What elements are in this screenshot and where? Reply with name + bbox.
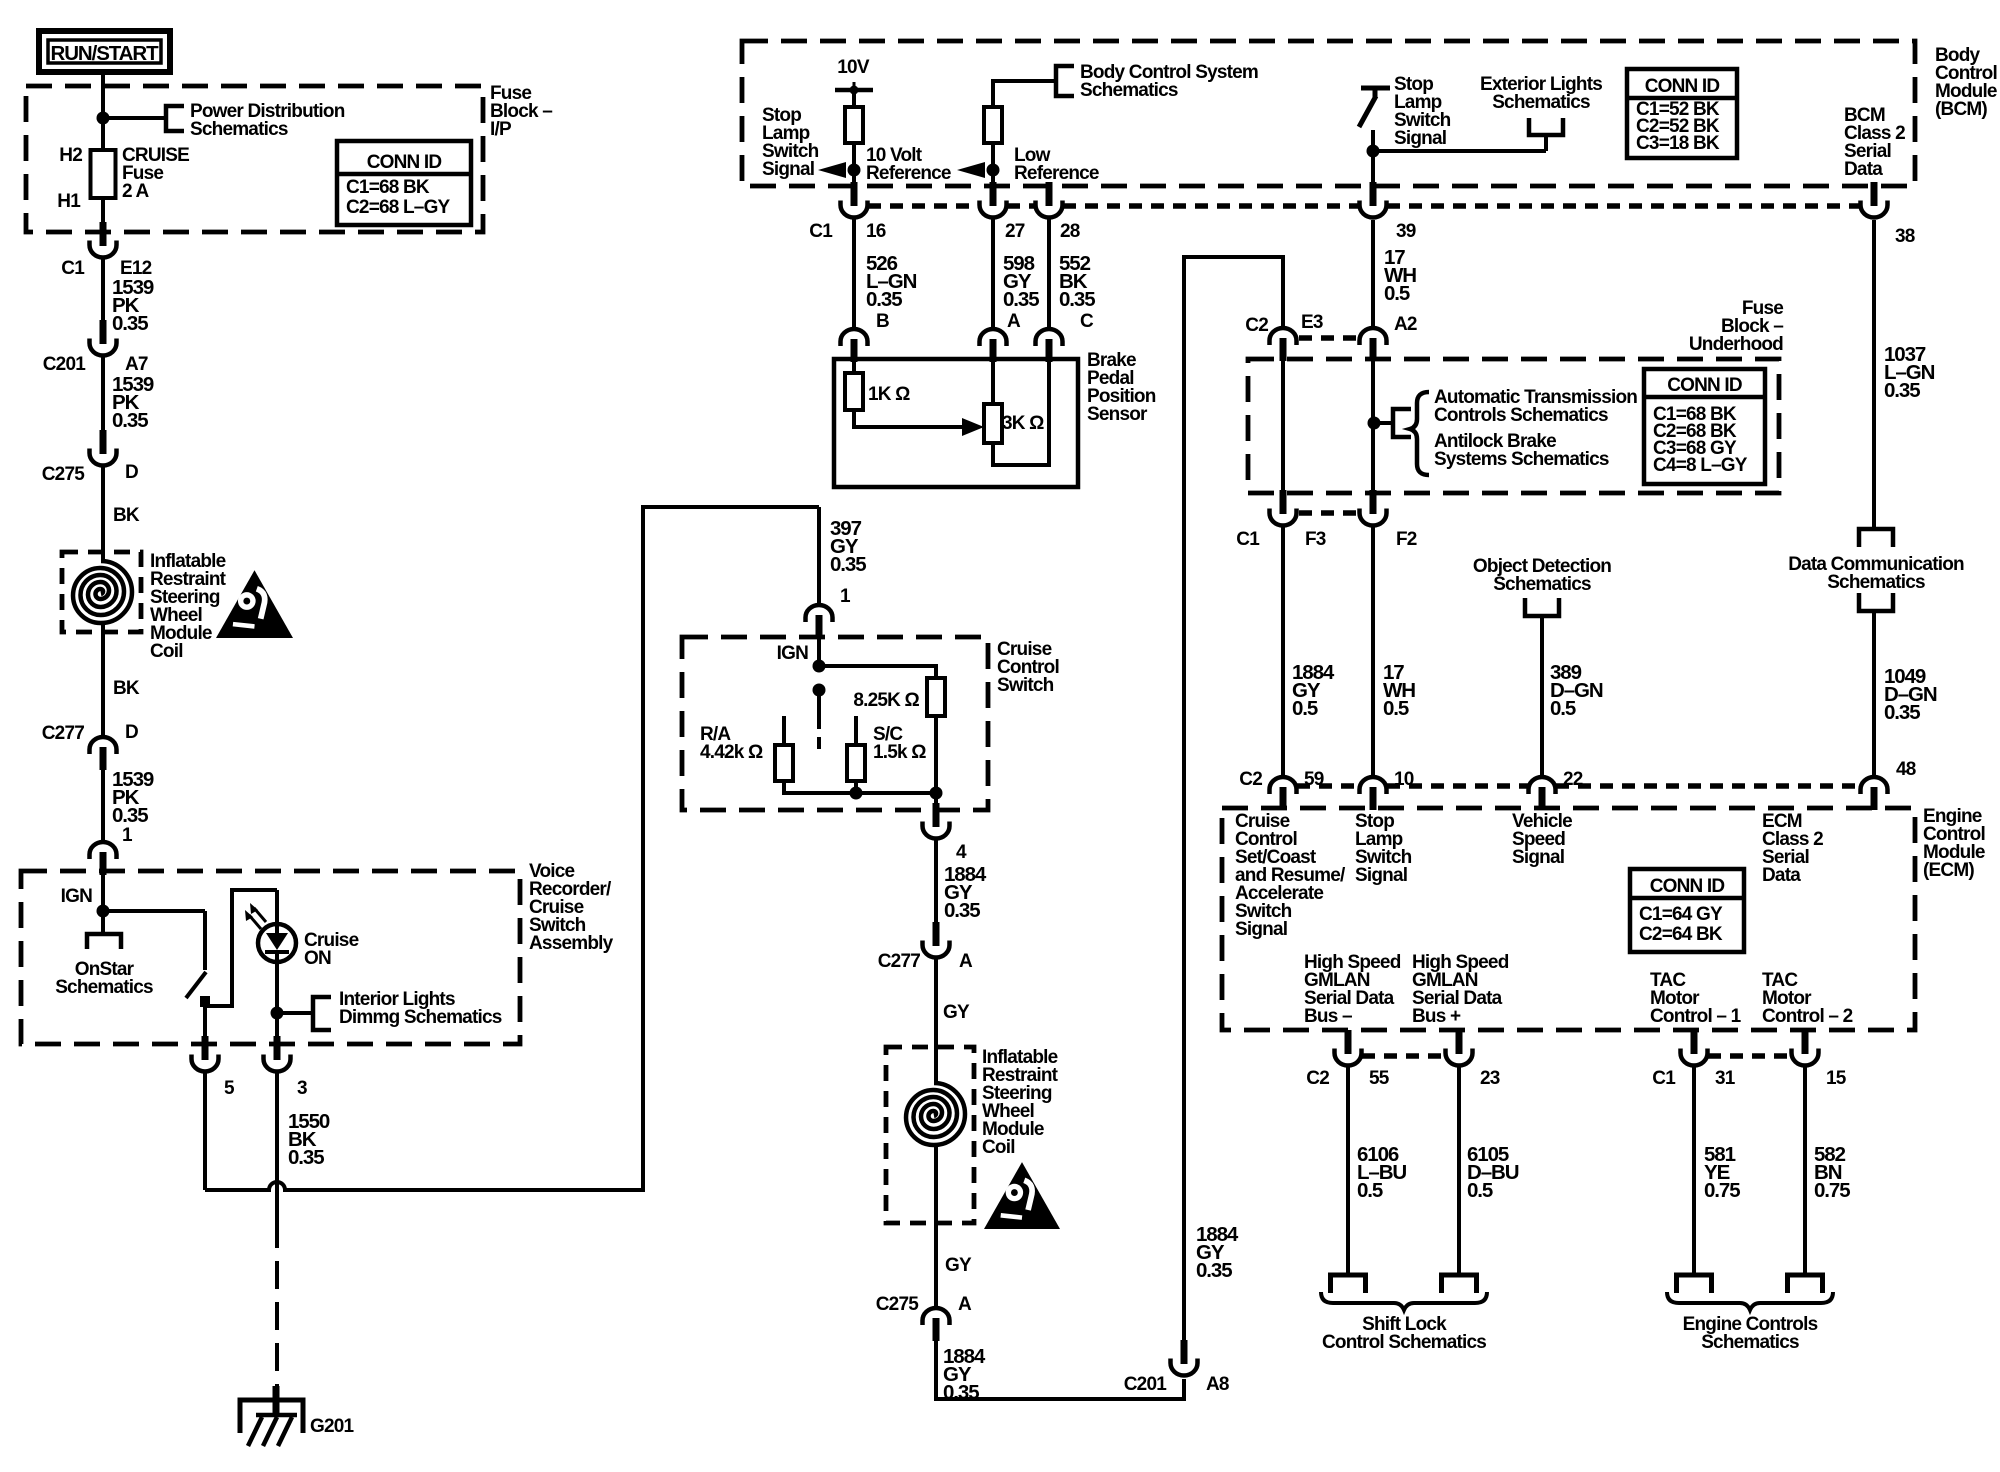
svg-text:C201: C201	[1124, 1374, 1167, 1395]
Cruise Control Switch dashed box	[682, 637, 988, 810]
junction low reference	[987, 164, 1000, 177]
svg-text:E3: E3	[1301, 312, 1323, 333]
connector ECM pin 55	[1335, 1030, 1362, 1066]
wire branch to interior lights dimming	[277, 1011, 313, 1015]
svg-text:D: D	[125, 462, 138, 483]
wire S/C bottom	[854, 781, 858, 795]
svg-text:C1=64 GYC2=64 BK: C1=64 GYC2=64 BK	[1639, 904, 1723, 945]
wire from pin at x=1459	[1457, 1067, 1461, 1274]
svg-text:C1: C1	[1236, 529, 1260, 550]
svg-text:CONN ID: CONN ID	[367, 152, 442, 173]
bracket Body Control System Schematics	[1056, 66, 1074, 96]
ECM bottom connector row dashed links	[1362, 1053, 1790, 1059]
wire 526 L-GN	[852, 219, 856, 329]
svg-text:5: 5	[224, 1078, 235, 1099]
wire to on/off switch	[203, 911, 207, 970]
svg-text:A: A	[958, 1294, 972, 1315]
switch wiper dash	[817, 737, 821, 749]
junction switch wiper	[813, 684, 826, 697]
wire vehicle speed signal	[1540, 616, 1544, 777]
on/off switch blade	[186, 972, 206, 998]
svg-text:3K Ω: 3K Ω	[1002, 413, 1044, 434]
junction interior lights	[271, 1007, 284, 1020]
brace Shift Lock Control Schematics	[1321, 1292, 1487, 1310]
svg-text:Automatic TransmissionControls: Automatic TransmissionControls Schematic…	[1434, 387, 1637, 426]
svg-text:3: 3	[297, 1078, 307, 1099]
svg-text:CONN ID: CONN ID	[1645, 76, 1720, 97]
terminal lug	[1677, 1275, 1712, 1293]
wire branch to AT/ABS	[1374, 421, 1393, 425]
connector pin 1 of voice recorder/cruise switch assembly	[90, 842, 117, 875]
svg-text:8.25K Ω: 8.25K Ω	[853, 690, 919, 711]
svg-text:A2: A2	[1394, 314, 1417, 335]
connector pin 1 of cruise control switch	[806, 605, 833, 638]
wire 552 BK	[1047, 219, 1051, 329]
wire to resistor 8.25K	[819, 666, 936, 678]
wire R/A bottom	[782, 781, 786, 795]
terminal lug	[1788, 1275, 1823, 1293]
connector C275 pin A	[923, 1308, 950, 1341]
wire S/C top	[854, 716, 858, 745]
wire 1539 PK	[101, 357, 105, 430]
wire 8.25K bottom	[934, 716, 938, 793]
svg-text:1: 1	[122, 825, 133, 846]
connector ECM pin 23	[1446, 1030, 1473, 1066]
wire IGN branch to switch	[103, 909, 205, 913]
RUN/START power feed box	[39, 31, 170, 72]
svg-text:H2: H2	[59, 145, 82, 166]
svg-text:10: 10	[1394, 769, 1414, 790]
CONN ID table (BCM)	[1627, 69, 1737, 158]
wire 17 WH	[1371, 220, 1375, 328]
svg-text:Engine ControlsSchematics: Engine ControlsSchematics	[1683, 1314, 1818, 1353]
svg-text:23: 23	[1480, 1068, 1500, 1089]
svg-text:A8: A8	[1206, 1374, 1229, 1395]
wire switch to pin 5	[203, 1007, 207, 1036]
junction exterior lights	[1367, 145, 1380, 158]
svg-text:H1: H1	[57, 191, 81, 212]
connector C201 pin A8	[1171, 1340, 1198, 1376]
wire 1884 GY to C201	[936, 1341, 1184, 1399]
bracket Power Distribution Schematics	[166, 106, 184, 131]
wire from pin at x=1805	[1803, 1067, 1807, 1274]
inflatable restraint steering wheel module coil (driver) dashed box	[62, 552, 141, 632]
wire A2 to F2	[1371, 360, 1375, 490]
svg-text:C2: C2	[1245, 315, 1268, 336]
bracket Data Communication (in)	[1859, 529, 1893, 547]
svg-text:10V: 10V	[837, 57, 870, 78]
wire to pin 4	[934, 793, 938, 803]
wire resistor to pin 27	[991, 143, 995, 186]
wire resistor to pin 16	[852, 143, 856, 186]
svg-text:D: D	[125, 722, 138, 743]
svg-text:C275: C275	[876, 1294, 919, 1315]
bracket AT/ABS schematics	[1393, 409, 1411, 437]
wire into 1K	[852, 360, 856, 373]
svg-text:1K Ω: 1K Ω	[868, 384, 910, 405]
wire 1884 GY to ECM 59	[1281, 527, 1285, 777]
bracket Interior Lights Dimmg Schematics	[313, 997, 331, 1030]
svg-text:C: C	[1080, 311, 1094, 332]
svg-text:1: 1	[840, 586, 851, 607]
BCM connector row dotted line	[868, 203, 1860, 209]
wire stop lamp switch down	[1371, 130, 1375, 186]
SIR warning triangle	[216, 570, 293, 638]
wire 1884 GY riser to E3	[1184, 257, 1283, 1340]
svg-text:C1: C1	[809, 221, 833, 242]
wire 1539 PK to switch assembly	[101, 770, 105, 842]
connector pin 4	[923, 803, 950, 839]
svg-text:59: 59	[1304, 769, 1324, 790]
connector C277 pin D	[90, 737, 117, 770]
svg-text:BK: BK	[113, 505, 140, 526]
wire BK into coil	[101, 466, 105, 563]
connector row dashed link F3-F2	[1299, 510, 1358, 516]
connector ECM pin 31	[1681, 1030, 1708, 1066]
connector BCM pin 38	[1861, 182, 1888, 218]
wire from pin at x=1694	[1692, 1067, 1696, 1274]
wire switch to LED	[205, 890, 277, 1006]
arrow to Stop Lamp Switch Signal	[818, 162, 846, 178]
svg-text:Object DetectionSchematics: Object DetectionSchematics	[1473, 556, 1611, 595]
wire to cruise ON LED	[275, 890, 279, 926]
connector pin A2 (fuse block underhood)	[1360, 328, 1387, 361]
svg-text:16: 16	[866, 221, 886, 242]
coil spiral 2 (steering wheel module coil)	[906, 1083, 965, 1145]
wire LED cathode down	[275, 961, 279, 1036]
terminal lug	[1442, 1275, 1477, 1293]
svg-text:C1=52 BKC2=52 BKC3=18 BK: C1=52 BKC2=52 BKC3=18 BK	[1636, 99, 1720, 154]
Fuse Block - I/P dashed box	[26, 86, 483, 232]
stop lamp switch (BCM internal)	[1359, 88, 1390, 127]
svg-text:C277: C277	[42, 723, 84, 744]
connector BCM pin 27	[980, 182, 1007, 218]
svg-text:BK: BK	[113, 678, 140, 699]
inflatable restraint steering wheel module coil (cruise) dashed box	[886, 1047, 974, 1223]
wire 3K return to pin C	[993, 360, 1049, 465]
wire: pin5/pin3 bus to cruise switch feed (with hop)	[205, 507, 819, 1190]
wire into 3K	[991, 360, 995, 404]
svg-text:B: B	[876, 311, 889, 332]
wire 1037 L-GN	[1872, 220, 1876, 529]
wire 1539 PK	[101, 259, 105, 321]
connector ECM pin 10	[1360, 777, 1387, 810]
svg-text:C201: C201	[43, 354, 86, 375]
junction 10 volt reference	[848, 164, 861, 177]
bracket Data Communication (out)	[1859, 593, 1893, 611]
connector pin 3	[264, 1036, 291, 1072]
svg-text:28: 28	[1060, 221, 1080, 242]
wire pin 5 down	[203, 1073, 207, 1190]
wire 1K to wiper	[854, 410, 964, 427]
connector C1 pin E12	[90, 222, 117, 258]
svg-text:A7: A7	[125, 354, 148, 375]
Brake Pedal Position Sensor box	[834, 359, 1078, 487]
connector BCM pin 28	[1036, 182, 1063, 218]
curly brace AT/ABS	[1410, 392, 1429, 475]
svg-text:CruiseControlSwitch: CruiseControlSwitch	[997, 639, 1059, 696]
svg-text:C1: C1	[1652, 1068, 1676, 1089]
svg-text:G201: G201	[310, 1416, 355, 1437]
svg-text:CONN ID: CONN ID	[1650, 876, 1725, 897]
bracket Object Detection Schematics	[1525, 598, 1559, 616]
resistor S/C 1.5k	[847, 745, 865, 781]
connector ECM pin 22	[1529, 777, 1556, 810]
wire fuse to connector C1	[101, 198, 105, 224]
Engine Control Module (ECM) dashed box	[1222, 808, 1915, 1030]
resistor BCM low reference	[984, 107, 1002, 143]
resistor 1K	[845, 373, 863, 410]
svg-text:C1=68 BKC2=68 BKC3=68 GYC4=8 L: C1=68 BKC2=68 BKC3=68 GYC4=8 L–GY	[1653, 404, 1748, 476]
wire E3 to F3	[1281, 360, 1285, 490]
svg-text:39: 39	[1396, 221, 1416, 242]
svg-text:IGN: IGN	[777, 643, 808, 664]
svg-text:4: 4	[956, 842, 967, 863]
connector ECM pin 15	[1792, 1030, 1819, 1066]
bracket Exterior Lights Schematics	[1529, 118, 1563, 135]
connector C201 pin A7	[90, 320, 117, 355]
wire bracket stem	[1544, 135, 1548, 151]
wire wiper	[817, 690, 821, 729]
wire 1884 GY	[934, 840, 938, 922]
wire IGN inside assembly	[101, 875, 105, 933]
junction IGN	[97, 905, 110, 918]
svg-text:C1: C1	[61, 258, 85, 279]
resistor 3K	[984, 404, 1002, 443]
svg-text:15: 15	[1826, 1068, 1847, 1089]
connector pin F2	[1360, 490, 1387, 526]
ECM connector row dotted line	[1297, 783, 1860, 789]
junction IGN to 8.25K	[813, 660, 826, 673]
10V supply symbol	[835, 82, 873, 95]
terminal lug	[1331, 1275, 1366, 1293]
LED cruise ON indicator	[245, 903, 296, 962]
ground G201	[240, 1386, 303, 1446]
brace Engine Controls Schematics	[1667, 1292, 1833, 1310]
svg-text:F3: F3	[1305, 529, 1326, 550]
potentiometer wiper arrow	[962, 418, 984, 436]
junction to Power Distribution	[97, 112, 110, 125]
resistor R/A 4.42k	[775, 745, 793, 781]
svg-text:F2: F2	[1396, 529, 1417, 550]
wire: ground run (dashed off-page)	[275, 1261, 279, 1398]
Body Control Module (BCM) dashed box	[742, 41, 1915, 186]
svg-text:C275: C275	[42, 464, 85, 485]
wire 10V to resistor	[852, 90, 856, 107]
svg-text:38: 38	[1895, 226, 1915, 247]
wire switch output bus	[784, 791, 936, 795]
connector ECM pin 48	[1861, 777, 1888, 810]
svg-text:Exterior LightsSchematics: Exterior LightsSchematics	[1480, 74, 1602, 113]
CONN ID table (ECM)	[1630, 869, 1744, 952]
junction S/C output	[850, 787, 863, 800]
CONN ID table (underhood)	[1644, 369, 1765, 484]
wire 397 GY to pin 1	[817, 507, 821, 605]
svg-text:GY: GY	[943, 1002, 970, 1023]
svg-text:C2: C2	[1306, 1068, 1329, 1089]
connector BCM pin 39	[1360, 182, 1387, 218]
SIR warning triangle 2	[984, 1162, 1060, 1229]
wire GY below coil 2	[934, 1143, 938, 1308]
bracket OnStar Schematics	[87, 934, 121, 949]
wire 598 GY	[991, 219, 995, 329]
svg-text:A: A	[959, 951, 973, 972]
connector BCM C1 pin 16	[841, 182, 868, 218]
svg-text:VehicleSpeedSignal: VehicleSpeedSignal	[1512, 811, 1572, 868]
connector pin 5	[192, 1036, 219, 1071]
svg-text:A: A	[1007, 311, 1021, 332]
svg-text:31: 31	[1715, 1068, 1736, 1089]
connector BPP sensor pin C	[1036, 329, 1063, 362]
resistor BCM 10V reference	[845, 107, 863, 143]
wire low reference from BCS	[993, 81, 1056, 107]
wire 1049 D-GN	[1872, 611, 1876, 777]
Fuse Block - Underhood dashed box	[1248, 359, 1779, 493]
wire branch to Power Distribution	[103, 116, 166, 120]
Voice Recorder / Cruise Switch Assembly dashed box	[21, 871, 520, 1044]
wire 17 WH to ECM 10	[1371, 527, 1375, 777]
connector C2 pin E3 (fuse block underhood)	[1270, 328, 1297, 361]
wire to exterior lights	[1373, 149, 1546, 153]
svg-text:55: 55	[1369, 1068, 1390, 1089]
resistor 8.25K	[927, 678, 945, 716]
CONN ID table (fuse block I/P)	[337, 141, 471, 225]
connector C277 pin A	[923, 922, 950, 958]
connector BPP sensor pin B	[841, 329, 868, 362]
connector C1 pin F3	[1270, 490, 1297, 526]
svg-text:RUN/START: RUN/START	[50, 42, 159, 65]
coil spiral (steering wheel module coil)	[73, 561, 132, 623]
connector C275 pin D	[90, 430, 117, 465]
connector BPP sensor pin A	[980, 329, 1007, 362]
junction to AT/ABS schematics	[1368, 417, 1381, 430]
svg-text:IGN: IGN	[61, 886, 92, 907]
fuse CRUISE 2A	[91, 150, 116, 198]
svg-text:GY: GY	[945, 1255, 972, 1276]
svg-text:22: 22	[1563, 769, 1583, 790]
wire IGN inside switch	[817, 638, 821, 666]
wire from pin at x=1348	[1346, 1067, 1350, 1274]
svg-text:48: 48	[1896, 759, 1916, 780]
svg-text:C2: C2	[1239, 769, 1262, 790]
svg-text:C277: C277	[878, 951, 920, 972]
wire R/A top	[782, 716, 786, 745]
wire pin 3 down	[275, 1073, 279, 1248]
junction 8.25K output	[930, 787, 943, 800]
wire BK below coil	[101, 621, 105, 737]
switch fixed contact	[200, 996, 210, 1007]
connector row dashed link E3-A2	[1299, 335, 1358, 341]
arrow to 10 Volt Reference	[957, 162, 985, 178]
svg-text:CONN ID: CONN ID	[1667, 375, 1742, 396]
svg-text:27: 27	[1005, 221, 1025, 242]
wire from RUN/START to fuse	[101, 72, 105, 150]
connector ECM C2 pin 59	[1270, 777, 1297, 810]
wire GY into coil 2	[934, 959, 938, 1083]
